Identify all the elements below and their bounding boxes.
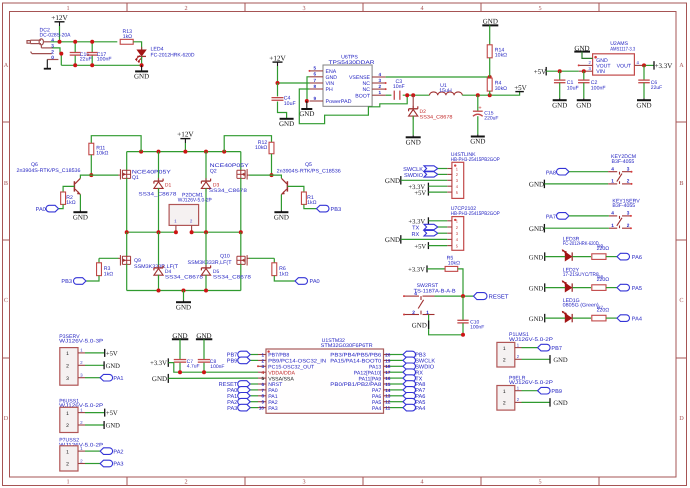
transistor Q1 PMOS [126, 152, 128, 171]
wire Q6 collector lead [80, 175, 91, 178]
svg-text:+3.3V: +3.3V [655, 62, 673, 70]
transistor Q2 PMOS [240, 152, 242, 171]
wire Q9 to bottom rail [126, 264, 128, 291]
svg-text:220Ω: 220Ω [597, 246, 610, 252]
svg-text:Q5: Q5 [305, 162, 312, 168]
wire R14 to mid [489, 58, 491, 77]
svg-text:1: 1 [503, 389, 506, 395]
node C2 tap [582, 69, 586, 73]
diode D3 [205, 152, 207, 182]
svg-text:C: C [4, 297, 8, 304]
svg-text:4: 4 [611, 166, 614, 172]
svg-text:6: 6 [314, 72, 317, 77]
net flag PA1 (mcu) [250, 395, 258, 397]
wire R4 to +5V rail [489, 91, 491, 95]
transistor Q10 NMOS [240, 232, 242, 257]
wire resistor to flag [606, 317, 617, 319]
op-amp U6TPS buck regulator TPS5430DDAR [323, 65, 372, 106]
capacitor C8 [203, 339, 205, 359]
resistor R2 [61, 192, 66, 204]
svg-text:RX: RX [412, 232, 420, 238]
svg-text:+12V: +12V [51, 14, 68, 22]
pin 19 of U1STM32 [384, 359, 391, 361]
node bottom rail junctions [157, 289, 161, 293]
wire motor pin2 to right mid rail [191, 231, 193, 232]
svg-text:PA7: PA7 [546, 215, 556, 221]
wire VOUT to +3.3V [644, 64, 654, 66]
svg-text:+5V: +5V [414, 190, 426, 197]
pin 11 of U1STM32 [384, 407, 391, 409]
svg-text:1: 1 [66, 351, 69, 357]
capacitor C3 [393, 91, 395, 100]
svg-text:6: 6 [261, 382, 264, 387]
svg-text:GND: GND [385, 177, 400, 185]
wire gnd stub [183, 291, 185, 301]
svg-text:2: 2 [627, 223, 630, 229]
svg-text:1: 1 [66, 449, 69, 455]
ground under C15 [471, 136, 485, 138]
svg-text:SS34_C8678: SS34_C8678 [420, 115, 453, 121]
svg-text:PA0: PA0 [36, 207, 46, 213]
svg-text:STM32G030F6P6TR: STM32G030F6P6TR [321, 343, 373, 349]
svg-text:9: 9 [314, 96, 317, 101]
resistor R7 220R [592, 315, 606, 321]
svg-text:4: 4 [611, 211, 614, 217]
pin 1 of U7CP2102 [447, 220, 452, 222]
svg-text:+5V: +5V [106, 351, 118, 358]
node C7 tap [178, 370, 182, 374]
pin 1 of P9ELR [515, 390, 522, 392]
wire R11 feed loop [91, 136, 141, 152]
svg-text:GND: GND [553, 400, 568, 407]
pin 3 of U7CP2102 [447, 232, 452, 234]
wire resistor to flag [606, 256, 617, 258]
pin 13 of U1STM32 [384, 395, 391, 397]
pin 18 of U1STM32 [384, 365, 391, 367]
pin 7 of U1STM32 [258, 389, 266, 391]
ground under C2 [577, 99, 591, 101]
svg-text:NC: NC [363, 81, 371, 87]
svg-text:D1: D1 [165, 182, 172, 188]
svg-text:PB9: PB9 [227, 359, 238, 365]
pin 16 of U1STM32 [384, 377, 391, 379]
wire gnd bottom rail [61, 64, 141, 66]
wire R12 feed loop [224, 136, 271, 152]
ground under D2 [406, 136, 421, 138]
wire +3.3V to pin1 [428, 220, 447, 222]
svg-text:1: 1 [261, 352, 264, 357]
svg-text:B: B [4, 180, 8, 187]
resistor R6 gate Q10 [249, 257, 274, 259]
gnd port P1LMS1 [522, 358, 551, 360]
wire C2 to gnd [583, 83, 585, 99]
svg-text:4: 4 [420, 5, 423, 12]
wire motor pin1 to left mid rail [175, 231, 177, 232]
net flag SWDIO (mcu right) [390, 365, 403, 367]
svg-text:NC: NC [363, 87, 371, 93]
gnd port P9ELR [522, 401, 551, 403]
node +12V at DC jack [58, 40, 62, 44]
wire R12 bottom to collector node [271, 154, 273, 175]
svg-text:5: 5 [314, 66, 317, 71]
pin 5 of U4STLINK [447, 191, 452, 193]
svg-text:1kΩ: 1kΩ [307, 200, 316, 206]
svg-text:GND: GND [529, 285, 544, 292]
pin 5 of U7CP2102 [447, 245, 452, 247]
net flag PA4 [617, 315, 630, 322]
svg-text:GND: GND [176, 303, 191, 311]
wire +12V top rail [51, 41, 118, 43]
resistor R13 [120, 39, 133, 44]
wire R11 bottom to collector node [90, 155, 92, 175]
wire +3.3V to R5 [427, 268, 445, 270]
svg-text:GND: GND [553, 357, 568, 364]
svg-text:0805G (Green): 0805G (Green) [563, 303, 599, 309]
svg-text:B3F-4055: B3F-4055 [612, 203, 635, 209]
svg-text:4.7uF: 4.7uF [187, 363, 200, 369]
svg-text:PA1: PA1 [113, 376, 123, 382]
pin 7 of U6TPS [310, 82, 324, 84]
net flag TX (mcu right) [390, 377, 403, 379]
svg-text:7: 7 [314, 78, 317, 83]
svg-text:PA4: PA4 [372, 406, 382, 412]
pin 1 of P7USS2 [78, 450, 85, 452]
svg-text:RESET: RESET [489, 294, 509, 301]
node C1 tap [558, 69, 562, 73]
svg-text:TS-1187A-B-A-B: TS-1187A-B-A-B [414, 288, 457, 294]
svg-text:GND: GND [299, 110, 314, 118]
net flag RX (mcu right) [390, 371, 403, 373]
power port +5V P6USS1 pin1 [85, 412, 105, 414]
svg-text:10uF: 10uF [567, 85, 579, 91]
svg-text:2: 2 [184, 479, 187, 486]
svg-text:Q2: Q2 [210, 169, 217, 175]
svg-text:+5V: +5V [534, 68, 547, 76]
capacitor C4 [277, 83, 279, 96]
svg-text:A: A [679, 62, 684, 69]
wire +12V stub to bridge rail [184, 143, 186, 152]
svg-text:3: 3 [51, 44, 54, 50]
wire Q1 to left mid rail [126, 178, 128, 232]
node C15 tap [476, 93, 480, 97]
svg-text:PA3: PA3 [113, 462, 123, 468]
svg-text:100nF: 100nF [210, 364, 224, 370]
pin 2 of U4STLINK [447, 173, 452, 175]
wire gnd to LED [545, 287, 566, 289]
pin 2 of U7CP2102 [447, 226, 452, 228]
svg-text:GND: GND [412, 321, 427, 329]
wire C3 to switch node [403, 94, 430, 96]
svg-text:GND: GND [279, 120, 294, 128]
svg-text:PA8: PA8 [546, 170, 556, 176]
svg-text:7: 7 [261, 388, 264, 393]
net flag PA2 [85, 450, 100, 452]
svg-text:FC-2012HRK-620D: FC-2012HRK-620D [151, 52, 195, 58]
wire LED4 cathode to gnd [141, 56, 143, 65]
node Q6 collector [89, 173, 93, 177]
pin 3 of U1STM32 [258, 365, 266, 367]
pin 1 of P3SERV [78, 352, 85, 354]
svg-text:PA0: PA0 [310, 279, 320, 285]
wire Q2 to right mid rail [240, 178, 242, 232]
pin 12 of U1STM32 [384, 401, 391, 403]
power port +5V P3SERV pin1 [85, 352, 105, 354]
net flag PB9 [522, 390, 538, 392]
svg-text:PH: PH [326, 87, 333, 93]
svg-text:B: B [679, 180, 683, 187]
svg-text:1: 1 [611, 179, 614, 185]
svg-text:1kΩ: 1kΩ [66, 200, 75, 206]
ground under LED4 [141, 65, 143, 71]
svg-text:17-21SUYC/TR8: 17-21SUYC/TR8 [563, 272, 599, 278]
node R4 tap [488, 93, 492, 97]
svg-text:SWDIO: SWDIO [404, 173, 424, 179]
svg-text:Q1: Q1 [132, 175, 139, 181]
net flag PA0 (bridge) [295, 278, 307, 285]
net flag PA5 (mcu right) [390, 401, 403, 403]
net flag PA7 (mcu right) [390, 389, 403, 391]
svg-text:5: 5 [538, 479, 541, 486]
svg-text:2: 2 [627, 179, 630, 185]
svg-text:5: 5 [261, 376, 264, 381]
svg-text:SS34_C8678: SS34_C8678 [165, 275, 203, 281]
svg-text:PA4: PA4 [415, 406, 425, 412]
svg-text:A: A [4, 62, 9, 69]
wire collector node to Q1 gate [91, 174, 118, 176]
svg-text:PowerPAD: PowerPAD [326, 99, 352, 105]
svg-text:100nF: 100nF [591, 85, 606, 91]
svg-text:TPS5430DDAR: TPS5430DDAR [329, 60, 375, 66]
net flag PB3 (bridge) [74, 278, 86, 285]
gnd port P6USS1 pin2 [85, 424, 104, 426]
pin 1 of U4STLINK [447, 168, 452, 170]
net flag PA4 (mcu right) [390, 407, 403, 409]
svg-text:22uF: 22uF [80, 57, 92, 63]
svg-text:10kΩ: 10kΩ [255, 145, 267, 151]
svg-text:D: D [4, 415, 9, 422]
wire SWDIO to pin2 [438, 173, 447, 175]
ground under Q6 [73, 211, 87, 213]
node reset junction [461, 294, 465, 298]
pin 3 of U6TPS [372, 82, 386, 84]
wire bridge top rail [127, 151, 241, 153]
pin 4 of U7CP2102 [447, 238, 452, 240]
svg-text:1kΩ: 1kΩ [104, 271, 113, 277]
resistor R5 [445, 266, 458, 271]
pin 1 of P6USS1 [78, 412, 85, 414]
pin 2 of P1LMS1 [515, 358, 522, 360]
resistor R12 [269, 142, 274, 154]
wire PA8 to key [569, 171, 608, 173]
pin 2 of U2AMS (VOUT left) [579, 64, 593, 66]
resistor R4 [487, 78, 492, 91]
svg-text:FC-2012HRK-620D: FC-2012HRK-620D [563, 241, 599, 247]
wire LED to resistor [572, 317, 591, 319]
wire switch pin1 to gnd [429, 315, 463, 335]
svg-text:GND: GND [470, 138, 485, 146]
node C6 tap [642, 63, 646, 67]
pin 20 of U1STM32 [384, 354, 391, 356]
svg-text:1: 1 [503, 346, 506, 352]
ground of bridge [176, 301, 191, 303]
wire gnd to key2 [544, 183, 608, 185]
pin 2 of U1STM32 [258, 359, 266, 361]
svg-text:+5V: +5V [106, 410, 118, 417]
svg-text:GND: GND [576, 101, 591, 109]
svg-text:GND: GND [274, 213, 289, 221]
svg-text:8: 8 [261, 394, 264, 399]
svg-text:+12V: +12V [269, 54, 286, 62]
wire R13 to LED4 [133, 42, 141, 50]
svg-text:SSM3K333R,LF(T: SSM3K333R,LF(T [134, 264, 179, 270]
svg-text:15uH: 15uH [439, 88, 452, 94]
wire C6 to gnd [643, 83, 645, 99]
node rail taps [139, 150, 143, 154]
wire PH to boot node (staircase) [299, 89, 407, 124]
svg-text:GND: GND [326, 75, 338, 81]
ground under C4 [280, 118, 294, 120]
transistor Q6 NPN [73, 181, 75, 191]
pin leads of P2DCM1 [175, 225, 177, 231]
svg-text:PB3: PB3 [331, 207, 342, 213]
svg-text:1: 1 [611, 223, 614, 229]
svg-text:10kΩ: 10kΩ [448, 260, 460, 266]
pin 1 of U2AMS [594, 56, 597, 59]
pin 6 of U6TPS [310, 76, 324, 78]
pin 5 of U6TPS [310, 70, 324, 72]
wire left mid rail [127, 231, 176, 233]
wire U6TPS GND pin to pad [307, 77, 310, 101]
power flag +5V (buck out) [515, 91, 524, 93]
wire collector node to Q2 gate [249, 174, 271, 176]
svg-text:GND: GND [73, 213, 88, 221]
net flag PA6 (mcu right) [390, 395, 403, 397]
svg-text:2n3904S-RTK/PS_C18536: 2n3904S-RTK/PS_C18536 [277, 169, 341, 175]
svg-text:+5V: +5V [414, 243, 426, 250]
pin 9 of U6TPS [310, 100, 324, 102]
svg-text:2: 2 [261, 358, 264, 363]
wire R5 to reset node [458, 269, 463, 296]
svg-text:10: 10 [259, 406, 265, 411]
node boot/PH [405, 93, 409, 97]
wire gnd to R14 [489, 25, 491, 44]
svg-text:GND: GND [152, 375, 167, 383]
net flag PB3 (driver) [317, 205, 329, 212]
svg-text:2: 2 [66, 462, 69, 468]
power port +3.3V output [653, 61, 655, 70]
svg-text:30kΩ: 30kΩ [495, 86, 507, 92]
wire gnd rail to VSSA [168, 377, 258, 379]
capacitor C16 [74, 42, 76, 52]
svg-text:PA2: PA2 [113, 449, 123, 455]
net flag RESET (mcu) [250, 383, 258, 385]
svg-text:100nF: 100nF [470, 324, 484, 330]
resistor R14 [487, 45, 492, 58]
wire gnd to LED [545, 256, 566, 258]
svg-text:1kΩ: 1kΩ [123, 34, 132, 40]
pin 4 of U4STLINK [447, 185, 452, 187]
svg-text:WJ126V-5.0-3P: WJ126V-5.0-3P [59, 339, 104, 345]
pin 6 of U1STM32 [258, 383, 266, 385]
svg-text:2: 2 [503, 358, 506, 364]
wire Q6 emitter to gnd [79, 195, 81, 211]
svg-text:GND: GND [529, 181, 544, 189]
wire PA7 to key [569, 215, 609, 217]
svg-text:2: 2 [184, 5, 187, 12]
svg-text:+3.3V: +3.3V [408, 267, 425, 274]
svg-text:3: 3 [379, 78, 382, 83]
svg-text:2: 2 [412, 310, 415, 316]
wire +12V to VIN [278, 66, 310, 83]
wire R3 to PB3 flag [86, 276, 99, 281]
node PowerPAD junction [305, 99, 309, 103]
wire D1 anode to mid rail [158, 188, 160, 232]
pin 1 of P1LMS1 [515, 347, 522, 349]
wire BOOT to C3 [386, 94, 392, 96]
svg-text:TX: TX [412, 226, 419, 232]
wire Q5 emitter to gnd [280, 195, 282, 211]
wire D5 anode to bottom rail [205, 275, 207, 291]
wire +12V to rail [59, 26, 61, 42]
wire R2 to PA0 flag [59, 204, 64, 208]
svg-text:GND: GND [552, 101, 567, 109]
resistor R9 220R [592, 254, 606, 260]
svg-text:AMS1117-3.3: AMS1117-3.3 [610, 46, 635, 52]
svg-text:Q10: Q10 [220, 253, 230, 259]
svg-text:1: 1 [66, 479, 69, 486]
svg-text:PA5: PA5 [632, 286, 642, 292]
svg-text:4: 4 [261, 370, 264, 375]
svg-text:9: 9 [261, 400, 264, 405]
svg-text:0: 0 [51, 55, 54, 61]
wire gnd to key1 [544, 227, 609, 229]
ground under Q5 [274, 211, 288, 213]
svg-text:PA3: PA3 [227, 406, 237, 412]
svg-text:GND: GND [385, 236, 400, 244]
svg-text:B3F-4055: B3F-4055 [612, 159, 635, 165]
wire C10 to gnd rail [462, 323, 464, 335]
svg-text:2: 2 [66, 423, 69, 429]
resistor R8 220R [592, 285, 606, 291]
net flag PA3 [85, 463, 100, 465]
ground of DC2 sleeve [46, 60, 48, 69]
resistor R1 [301, 192, 306, 204]
node divider mid [488, 75, 492, 79]
capacitor C2 [583, 71, 585, 80]
net flag PB7 [522, 347, 538, 349]
svg-text:D: D [679, 415, 684, 422]
svg-text:SS34_C8678: SS34_C8678 [213, 275, 251, 281]
wire D4 anode to bottom rail [158, 275, 160, 291]
pin 17 of U1STM32 [384, 371, 391, 373]
svg-text:2: 2 [503, 401, 506, 407]
ground at PowerPAD [301, 108, 312, 110]
svg-text:10uF: 10uF [284, 101, 296, 107]
net flag PA0 (mcu) [250, 389, 258, 391]
node gnd corner [461, 333, 465, 337]
wire RX to pin3 [438, 232, 447, 234]
svg-text:3: 3 [66, 376, 69, 382]
pin 3 of U2AMS (VIN) [579, 70, 593, 72]
svg-text:3: 3 [627, 211, 630, 217]
svg-text:1: 1 [66, 5, 69, 12]
pin 2 of P6USS1 [78, 424, 85, 426]
svg-text:GND: GND [529, 316, 544, 323]
node Q5 collector [270, 173, 274, 177]
net flag PB9 (mcu) [250, 359, 258, 361]
svg-text:GND: GND [134, 73, 149, 81]
diode D2 schottky [412, 95, 414, 109]
